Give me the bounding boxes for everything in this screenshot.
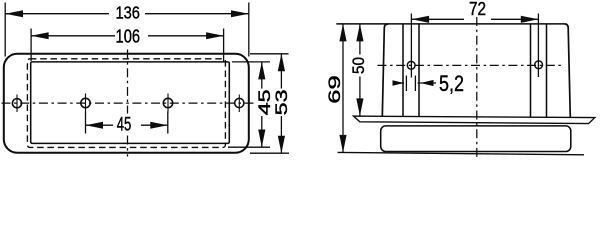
dimension 45 vertical (lens height) (228, 62, 270, 147)
dimension 136 (5, 3, 249, 57)
dimension 45 between lens screw holes (86, 112, 168, 134)
dimension 5,2 hole diameter (393, 76, 437, 92)
svg-text:5,2: 5,2 (439, 71, 464, 96)
outer housing rounded rectangle (4, 54, 249, 153)
lens screw hole right (163, 98, 172, 107)
svg-text:106: 106 (116, 26, 141, 46)
lens rim bar (354, 116, 595, 124)
lens screw hole left (81, 98, 90, 107)
vertical centerline (127, 50, 129, 114)
dimension 53 vertical (housing height) (250, 54, 289, 153)
lower housing body (381, 126, 571, 152)
left screw tower (402, 24, 404, 116)
svg-text:72: 72 (469, 0, 486, 19)
right screw tower (530, 24, 532, 117)
svg-text:50: 50 (349, 57, 368, 74)
dimension 69 (342, 24, 344, 153)
horizontal centerline (2, 102, 254, 104)
bottom extension line (338, 152, 585, 154)
right tower hole (535, 61, 543, 69)
svg-text:136: 136 (115, 2, 140, 22)
left flange mounting hole (12, 99, 21, 108)
svg-text:69: 69 (325, 75, 344, 104)
left tower hole (407, 61, 415, 69)
housing right wall (564, 24, 570, 118)
dimension 72 (411, 14, 538, 78)
inner lens rectangle (31, 62, 230, 143)
horizontal centerline through tower holes (378, 64, 562, 66)
hidden lens edge dashed rectangle (27, 59, 225, 148)
housing left wall (382, 24, 388, 116)
dimension 50 (359, 24, 361, 116)
vertical centerline right view (476, 17, 478, 159)
svg-text:53: 53 (272, 89, 291, 115)
svg-text:45: 45 (117, 114, 132, 135)
dimension 106 (31, 29, 224, 62)
housing top edge with extension to the left (336, 23, 564, 25)
right flange mounting hole (235, 98, 244, 107)
